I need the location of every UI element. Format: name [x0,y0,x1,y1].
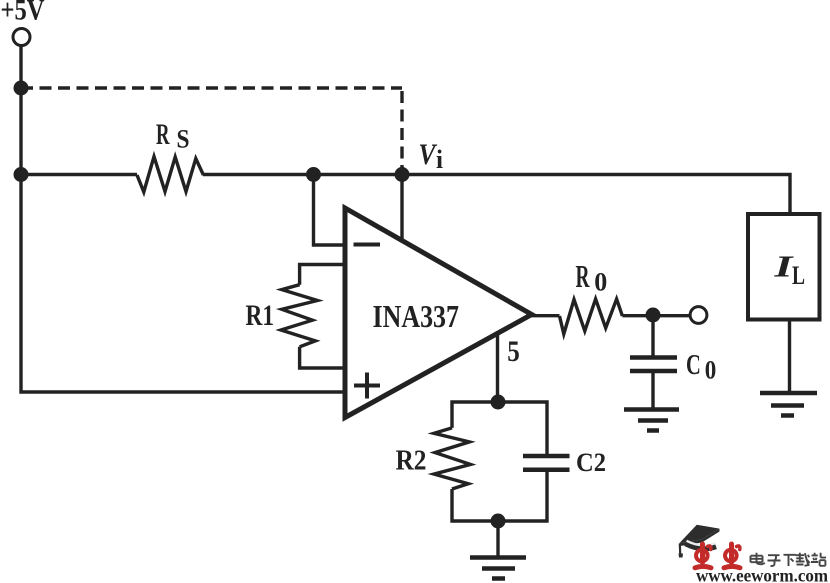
svg-text:+5V: +5V [1,0,45,27]
svg-text:INA337: INA337 [373,298,460,334]
svg-text:R: R [576,258,591,294]
svg-text:R: R [156,118,170,151]
svg-text:0: 0 [705,356,717,385]
svg-text:www.eeworm.com: www.eeworm.com [696,566,828,583]
svg-text:i: i [436,145,443,174]
svg-text:5: 5 [507,335,520,368]
svg-text:C2: C2 [576,448,606,477]
svg-text:C: C [686,350,701,381]
svg-text:R1: R1 [246,299,275,332]
svg-text:I: I [773,249,794,284]
svg-text:R2: R2 [396,445,427,477]
svg-text:L: L [792,261,805,290]
svg-text:0: 0 [594,267,607,296]
svg-text:S: S [177,125,190,154]
